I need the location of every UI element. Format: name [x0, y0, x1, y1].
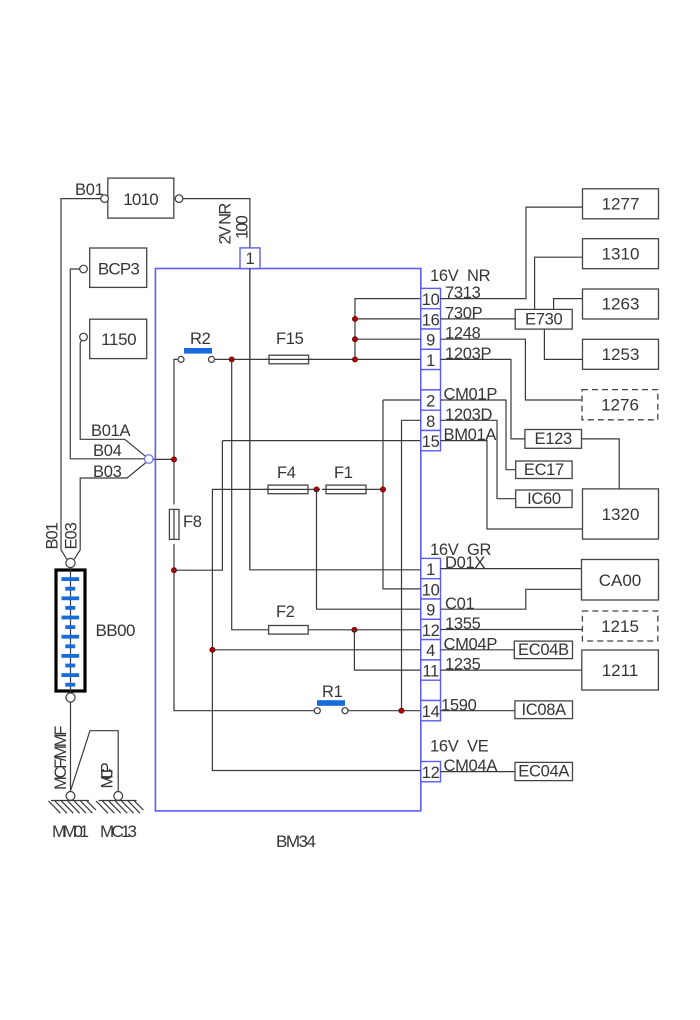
svg-text:IC08A: IC08A	[522, 701, 567, 719]
wire B03 from node to battery plus	[74, 463, 146, 560]
junction R2 right	[229, 357, 234, 362]
svg-text:1355: 1355	[445, 615, 481, 633]
svg-text:9: 9	[426, 602, 435, 620]
svg-text:1: 1	[426, 561, 435, 579]
wire F4 left line: CM04P/CM04A column	[212, 489, 420, 770]
svg-text:1590: 1590	[441, 696, 477, 714]
module BM34 outline	[155, 269, 420, 811]
box 1276 (dashed)	[582, 390, 658, 420]
node B junction circle	[145, 455, 154, 464]
fuse F4	[268, 485, 308, 494]
svg-text:B01: B01	[75, 181, 104, 199]
wire B01 from 1010 left terminal down to battery plus	[61, 199, 101, 560]
resistor R1	[317, 700, 345, 706]
box 1320	[583, 489, 659, 539]
junction NR bus pin16	[352, 316, 357, 321]
svg-text:EC17: EC17	[524, 461, 564, 479]
svg-text:1277: 1277	[602, 195, 640, 214]
wire 1150 to node B01A	[80, 341, 145, 457]
svg-text:F4: F4	[277, 464, 296, 482]
wire pin12 GR to 1215	[441, 629, 583, 631]
terminal circle BCP3	[80, 265, 88, 273]
wire E730 to 1253	[544, 329, 582, 359]
wire pin 4 stub	[212, 649, 420, 651]
wire BCP3 to node B04	[70, 269, 144, 459]
wire E123 to 1320	[582, 439, 620, 489]
svg-text:16: 16	[422, 311, 440, 329]
svg-text:EC04A: EC04A	[518, 763, 569, 781]
junction F2 right	[352, 627, 357, 632]
svg-text:R2: R2	[190, 330, 211, 348]
junction node B inside module	[171, 457, 176, 462]
svg-text:1263: 1263	[602, 295, 640, 314]
box 1215 (dashed)	[582, 611, 657, 641]
wire pin12 VE to EC04A	[441, 771, 516, 773]
svg-text:1203P: 1203P	[445, 345, 492, 363]
wire BM01A pin15 stub	[222, 440, 420, 442]
wire pin10 NR to 1277	[441, 207, 583, 299]
svg-text:MCF/MMF: MCF/MMF	[52, 726, 70, 790]
wire battery minus to ground MM01	[70, 702, 72, 791]
wire NR bus riser x355	[355, 299, 421, 360]
connector strip 16V NR	[421, 288, 441, 450]
svg-text:14: 14	[422, 703, 440, 721]
fuse F2	[269, 626, 309, 635]
ground symbol MC13	[96, 801, 143, 814]
svg-text:MC13: MC13	[100, 822, 137, 841]
svg-text:BM01A: BM01A	[444, 426, 497, 444]
svg-text:4: 4	[426, 642, 435, 660]
svg-text:16V NR: 16V NR	[430, 267, 491, 285]
connector strip 16V GR	[421, 558, 441, 720]
box EC17	[516, 461, 572, 479]
svg-text:1310: 1310	[602, 244, 640, 263]
terminal circle R1 right	[342, 708, 348, 714]
wire branch to pin 16	[355, 318, 421, 320]
box 1253	[583, 339, 659, 369]
svg-text:12: 12	[422, 622, 440, 640]
wire 2V NR from 1010 right terminal to BM34 top pin	[183, 199, 250, 570]
wire pin14 GR to IC08A	[441, 710, 515, 712]
battery minus terminal circle	[66, 693, 75, 702]
wire F4-F1 junction down to GR pin 9	[317, 489, 421, 609]
svg-text:7313: 7313	[445, 284, 481, 302]
wire pin9 NR to 1276	[441, 339, 583, 400]
svg-text:BCP3: BCP3	[98, 260, 140, 279]
wire F8 junction to BM01A column	[174, 441, 222, 571]
box IC60	[516, 490, 572, 508]
svg-text:BM34: BM34	[276, 832, 316, 851]
svg-text:1320: 1320	[602, 505, 640, 524]
ground symbol MM01	[49, 801, 96, 814]
svg-text:2: 2	[426, 393, 435, 411]
box BCP3	[90, 248, 147, 287]
junction NR bus pin9	[352, 337, 357, 342]
fuse F8	[169, 509, 179, 539]
svg-text:E123: E123	[535, 430, 572, 448]
box 1150	[90, 319, 147, 358]
box 1277	[583, 189, 659, 219]
svg-text:1276: 1276	[601, 395, 639, 414]
svg-text:1215: 1215	[601, 617, 639, 636]
box E123	[525, 430, 582, 449]
box EC04B	[514, 641, 572, 659]
svg-text:R1: R1	[322, 683, 343, 701]
wire pin11 GR to 1211	[441, 669, 582, 671]
ground terminal circle MM01	[66, 792, 75, 801]
svg-text:1: 1	[426, 352, 435, 370]
box 1263	[583, 289, 659, 319]
svg-text:730P: 730P	[445, 304, 483, 322]
svg-text:1010: 1010	[123, 190, 159, 209]
junction CM04P column	[210, 647, 215, 652]
svg-text:D01X: D01X	[445, 554, 485, 572]
terminal circle 1010 right	[175, 195, 183, 203]
wire F2 junction down to pin 11	[354, 630, 420, 670]
wire pin2 NR to EC17	[441, 400, 516, 470]
junction F1 right	[380, 487, 385, 492]
svg-text:C01: C01	[445, 595, 474, 613]
svg-text:CM04A: CM04A	[444, 757, 498, 775]
wire node to BM34 interior	[153, 458, 174, 460]
svg-text:1150: 1150	[101, 330, 136, 349]
svg-text:1248: 1248	[445, 325, 481, 343]
svg-text:F2: F2	[276, 603, 295, 621]
box 1211	[582, 650, 659, 690]
box 1310	[583, 239, 659, 269]
svg-text:10: 10	[422, 291, 440, 309]
svg-text:11: 11	[422, 663, 439, 681]
svg-text:2V NR: 2V NR	[217, 203, 235, 245]
svg-text:CM01P: CM01P	[444, 386, 498, 404]
junction F8 bottom	[171, 568, 176, 573]
svg-text:100: 100	[234, 215, 252, 239]
wire F1 right junction riser: pin2 down to GR pin10	[370, 400, 421, 589]
svg-text:16V VE: 16V VE	[430, 738, 489, 756]
svg-text:9: 9	[426, 332, 435, 350]
svg-text:8: 8	[426, 413, 435, 431]
box IC08A	[515, 701, 573, 719]
box CA00	[582, 560, 659, 601]
wire R1 right to GR pin 14	[348, 710, 421, 712]
fuse F1	[326, 485, 366, 494]
wire pin4 GR to EC04B	[441, 649, 515, 651]
terminal circle R2 left	[178, 356, 184, 362]
terminal circle R2 right	[209, 356, 215, 362]
wire pin8 1203D column down to R1 output	[402, 420, 421, 710]
wire R2 left branch down to node junction and F8	[174, 359, 177, 504]
wire E730 to 1310	[535, 257, 583, 309]
wire pin1 NR to E123	[441, 359, 525, 439]
wire F8 lower to R1	[174, 544, 314, 711]
wire pin16 NR to E730	[441, 318, 516, 320]
svg-text:E03: E03	[63, 522, 81, 549]
svg-text:1: 1	[246, 250, 255, 268]
svg-text:B01: B01	[44, 522, 62, 549]
wire pin9 GR C01 to CA00	[441, 589, 582, 609]
box 1010	[108, 178, 174, 218]
svg-text:15: 15	[422, 433, 440, 451]
svg-text:MM01: MM01	[52, 822, 89, 841]
wire R2 junction down to F2 line	[232, 359, 421, 629]
terminal circle 1150	[80, 333, 88, 341]
terminal circle 1010 left	[101, 195, 109, 203]
svg-text:MCP: MCP	[99, 762, 117, 788]
svg-text:B04: B04	[93, 442, 122, 460]
junction NR bus pin1	[352, 357, 357, 362]
fuse F15	[269, 355, 309, 364]
svg-text:F1: F1	[334, 464, 353, 482]
battery BB00 body	[56, 570, 85, 691]
svg-text:F8: F8	[183, 513, 202, 531]
terminal circle R1 left	[314, 708, 320, 714]
svg-text:EC04B: EC04B	[518, 641, 569, 659]
svg-text:CA00: CA00	[599, 571, 642, 590]
svg-text:1253: 1253	[602, 345, 640, 364]
svg-text:1203D: 1203D	[445, 406, 493, 424]
wire pin1 GR to CA00	[441, 568, 582, 570]
connector strip 16V VE	[421, 762, 441, 782]
junction F4-F1	[314, 487, 319, 492]
battery cell plates	[62, 577, 80, 686]
battery plus terminal circle	[66, 558, 75, 567]
svg-text:1211: 1211	[602, 661, 639, 680]
wire E730 to 1263	[554, 299, 583, 310]
svg-text:BB00: BB00	[96, 621, 136, 640]
box EC04A	[515, 762, 573, 780]
svg-text:F15: F15	[276, 330, 304, 348]
junction R1-1203D	[399, 708, 404, 713]
svg-text:1235: 1235	[445, 656, 481, 674]
wire branch to pin 9	[355, 338, 421, 340]
svg-text:12: 12	[422, 764, 440, 782]
svg-text:B01A: B01A	[91, 422, 130, 440]
box E730	[515, 309, 572, 329]
wire pin8 NR to IC60	[441, 420, 516, 498]
wire R2 right to F15 to NR bus	[215, 358, 421, 360]
svg-text:E730: E730	[525, 311, 562, 329]
wire top pin into module (2V NR line) continues to GR pin 1	[250, 269, 421, 570]
wire MCF/MMF link to MC13	[71, 731, 118, 791]
wire pin15 NR to 1320	[441, 441, 583, 529]
wire battery internal conductor	[70, 568, 72, 694]
svg-text:IC60: IC60	[527, 490, 561, 508]
svg-text:10: 10	[422, 581, 440, 599]
ground terminal circle MC13	[114, 792, 123, 801]
resistor R2	[184, 348, 212, 354]
top pin box 1	[240, 248, 260, 269]
svg-text:CM04P: CM04P	[444, 635, 498, 653]
